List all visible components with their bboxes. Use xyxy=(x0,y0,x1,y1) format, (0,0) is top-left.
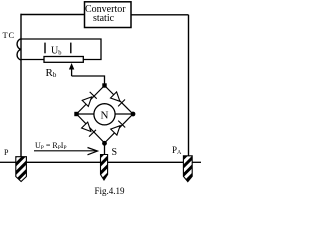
node left xyxy=(74,112,78,116)
diode D2 top-right xyxy=(111,92,126,107)
potentiometer wiper arrow xyxy=(69,63,74,76)
wire ground line S to PA xyxy=(108,161,183,163)
electrode PA xyxy=(183,156,192,182)
wire ground line right of PA xyxy=(192,161,201,163)
svg-text:P: P xyxy=(4,148,9,157)
svg-text:Fig.4.19: Fig.4.19 xyxy=(95,186,126,196)
wire right vertical xyxy=(188,15,190,156)
wire left vertical xyxy=(20,14,22,157)
wire bridge arm top-left xyxy=(77,86,105,115)
svg-text:Ub: Ub xyxy=(51,45,61,56)
node top xyxy=(102,83,106,87)
wire wiper to bridge top xyxy=(72,76,105,86)
wire top-left horizontal xyxy=(21,14,85,16)
diode D1 top-left xyxy=(82,92,97,107)
diode D4 bottom-right xyxy=(111,121,126,136)
wire ground line left of P xyxy=(0,161,16,163)
wire bridge horizontal diagonal xyxy=(77,113,134,115)
meter N xyxy=(94,104,115,125)
node bottom xyxy=(102,141,107,146)
svg-text:Rb: Rb xyxy=(46,67,57,79)
svg-text:TC: TC xyxy=(3,30,15,40)
resistor Rb xyxy=(44,57,83,63)
wire secondary top xyxy=(21,39,101,60)
svg-text:N: N xyxy=(101,110,109,122)
wire bridge arm bottom-left xyxy=(77,114,105,143)
wire bridge arm top-right xyxy=(105,86,134,115)
svg-text:static: static xyxy=(93,13,115,24)
tick left of Ub span xyxy=(44,43,46,54)
transformer TC coil xyxy=(17,39,21,60)
wire bridge arm bottom-right xyxy=(105,114,134,143)
wire bridge bottom to electrode S xyxy=(104,143,106,155)
electrode P xyxy=(16,157,27,182)
svg-text:S: S xyxy=(112,147,118,158)
node right xyxy=(131,112,136,117)
wire secondary bottom xyxy=(21,59,44,61)
electrode S xyxy=(101,155,108,181)
svg-text:PA: PA xyxy=(172,145,182,156)
arrow Up xyxy=(34,148,98,155)
tick right of Ub span xyxy=(70,43,72,54)
wire top-right horizontal xyxy=(131,14,189,16)
svg-text:UP = RPIP: UP = RPIP xyxy=(35,141,67,151)
wire ground line P to S xyxy=(27,161,101,163)
converter box U1 xyxy=(85,2,132,28)
diode D3 bottom-left xyxy=(82,122,96,137)
